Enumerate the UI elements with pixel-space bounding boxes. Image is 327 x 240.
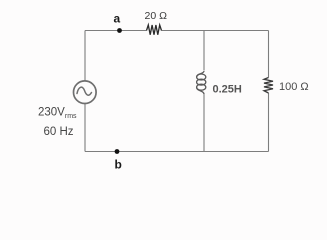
- AC source sine wave: [77, 87, 92, 95]
- resistor R1 20 ohm (horizontal zigzag): [147, 25, 162, 35]
- wire top-right segment (resistor to right corner): [162, 30, 269, 32]
- node b dot: [115, 149, 120, 154]
- svg-text:a: a: [114, 12, 121, 26]
- svg-text:20 Ω: 20 Ω: [145, 10, 168, 22]
- wire middle vertical lower (inductor to bottom wire): [203, 94, 205, 151]
- svg-text:60 Hz: 60 Hz: [44, 126, 74, 138]
- wire right vertical upper (top corner to resistor R2): [268, 31, 270, 78]
- svg-text:b: b: [115, 158, 122, 172]
- resistor R2 100 ohm (vertical zigzag): [264, 78, 273, 94]
- wire top-left segment (node a to resistor): [85, 30, 147, 32]
- wire left vertical upper (top corner to source): [84, 31, 86, 81]
- svg-text:100 Ω: 100 Ω: [279, 81, 309, 93]
- AC source V1 circle: [74, 81, 97, 104]
- wire left vertical lower (source to bottom corner): [84, 104, 86, 152]
- svg-text:0.25H: 0.25H: [213, 84, 242, 96]
- svg-text:230Vrms: 230Vrms: [38, 107, 77, 121]
- inductor L1 coil: [197, 71, 206, 94]
- node a dot: [117, 28, 122, 33]
- wire bottom (left corner to right corner): [85, 151, 269, 153]
- wire right vertical lower (resistor R2 to bottom corner): [268, 93, 270, 152]
- wire middle vertical upper (top wire to inductor): [203, 31, 205, 71]
